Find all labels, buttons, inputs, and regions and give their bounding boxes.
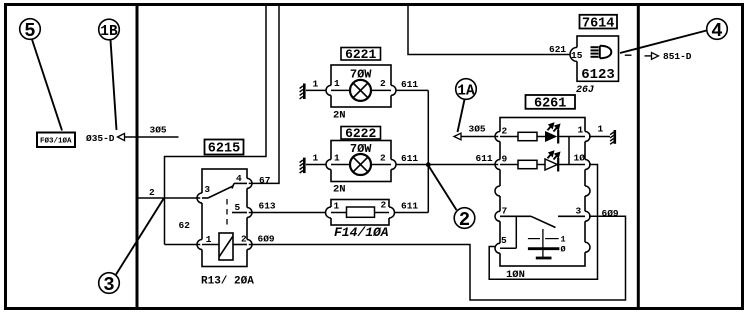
svg-text:2: 2: [241, 234, 247, 245]
svg-text:611: 611: [401, 201, 418, 212]
svg-text:R13/ 2ØA: R13/ 2ØA: [201, 276, 254, 288]
svg-text:1: 1: [334, 152, 340, 163]
svg-text:1ØN: 1ØN: [506, 269, 525, 281]
svg-text:15: 15: [571, 50, 583, 61]
svg-text:2: 2: [381, 200, 387, 211]
svg-text:1: 1: [313, 79, 319, 90]
svg-text:3Ø5: 3Ø5: [469, 124, 486, 135]
svg-text:611: 611: [476, 153, 493, 164]
svg-text:5: 5: [235, 202, 241, 213]
svg-text:6261: 6261: [534, 97, 566, 112]
svg-text:5: 5: [501, 235, 507, 246]
svg-text:1A: 1A: [457, 83, 475, 99]
svg-text:613: 613: [259, 201, 276, 212]
svg-text:7ØW: 7ØW: [350, 68, 372, 82]
svg-text:1B: 1B: [100, 24, 118, 40]
svg-text:1: 1: [561, 235, 566, 245]
svg-text:Ø35-D: Ø35-D: [86, 133, 115, 144]
svg-text:6123: 6123: [581, 67, 615, 83]
svg-text:6Ø9: 6Ø9: [258, 234, 275, 245]
svg-text:1: 1: [578, 125, 584, 136]
svg-text:1: 1: [206, 234, 212, 245]
svg-text:611: 611: [401, 79, 418, 90]
svg-text:2: 2: [380, 78, 386, 89]
svg-text:2: 2: [149, 187, 155, 198]
svg-text:F14/1ØA: F14/1ØA: [334, 225, 389, 240]
svg-text:611: 611: [401, 153, 418, 164]
svg-text:2: 2: [459, 209, 470, 231]
svg-text:2: 2: [380, 152, 386, 163]
svg-text:2N: 2N: [333, 110, 346, 122]
svg-text:3Ø5: 3Ø5: [150, 125, 167, 136]
svg-text:7614: 7614: [582, 16, 614, 31]
svg-text:Ø: Ø: [561, 245, 566, 255]
svg-text:621: 621: [549, 44, 566, 55]
svg-text:5: 5: [24, 20, 35, 42]
svg-text:6215: 6215: [208, 142, 240, 157]
svg-text:1Ø: 1Ø: [574, 153, 586, 164]
svg-text:62: 62: [179, 220, 191, 231]
svg-text:1: 1: [334, 78, 340, 89]
svg-text:26J: 26J: [576, 85, 594, 96]
svg-text:1: 1: [598, 124, 604, 135]
svg-text:3: 3: [103, 274, 114, 296]
svg-text:67: 67: [259, 175, 271, 186]
svg-text:6221: 6221: [345, 47, 376, 62]
svg-text:FØ3/1ØA: FØ3/1ØA: [40, 137, 72, 146]
svg-text:7ØW: 7ØW: [350, 142, 372, 156]
svg-text:4: 4: [711, 20, 722, 42]
svg-text:7: 7: [502, 206, 508, 217]
svg-text:4: 4: [236, 173, 242, 184]
svg-text:3: 3: [576, 206, 582, 217]
svg-text:6Ø9: 6Ø9: [602, 208, 619, 219]
svg-text:3: 3: [204, 184, 210, 195]
svg-text:851-D: 851-D: [663, 51, 692, 62]
svg-text:6222: 6222: [345, 126, 376, 141]
svg-text:9: 9: [502, 154, 508, 165]
svg-text:1: 1: [313, 153, 319, 164]
svg-text:1: 1: [334, 201, 340, 212]
svg-text:2N: 2N: [333, 184, 346, 196]
svg-text:2: 2: [502, 126, 508, 137]
